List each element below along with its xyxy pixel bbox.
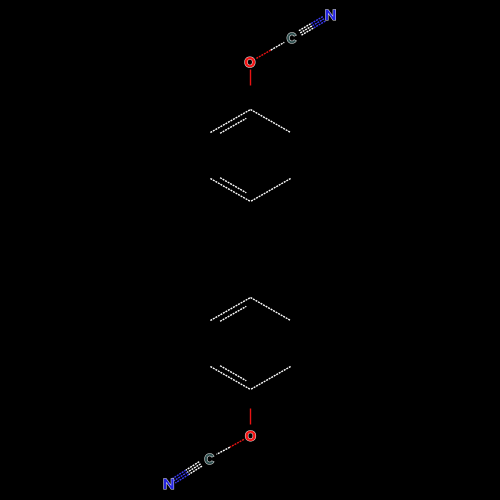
ring1 edge A3-A4 [251, 179, 291, 202]
ring2 edge B5-B4 inner double line [220, 366, 246, 381]
atom label O1 [245, 57, 255, 67]
bond O2-C2 red half [230, 439, 244, 447]
triple bond C1-N1 line2 blue half [312, 19, 324, 26]
ring2 edge B5-B4 main [210, 367, 250, 390]
ring2 edge B6-B1 main [210, 298, 250, 321]
ring2 edge B1-B2 [251, 298, 291, 321]
triple bond C2-N2 line1 blue half [173, 470, 186, 479]
atom label N2 [164, 479, 174, 489]
triple bond C2-N2 line2 blue half [174, 472, 187, 481]
ring1 edge A6-A1 inner double line [220, 118, 246, 133]
atom label N1 [326, 10, 336, 20]
triple bond C2-N2 line2 white half [187, 464, 200, 472]
triple bond C2-N2 line1 white half [186, 462, 199, 470]
triple bond C2-N2 line3 white half [189, 466, 202, 474]
ring2 edge B6-B1 inner double line [220, 306, 246, 321]
ring2 edge B3-B4 [251, 367, 291, 390]
atom label C1 [287, 33, 296, 43]
bond O2-C2 gray half [217, 447, 230, 454]
bond O1-ring1 red stub [250, 70, 252, 86]
triple bond C1-N1 line3 blue half [314, 21, 326, 28]
triple bond C1-N1 line3 white half [302, 28, 314, 35]
triple bond C1-N1 line1 white half [299, 24, 311, 31]
atom label C2 [205, 454, 214, 464]
atom label O2 [245, 431, 255, 441]
triple bond C1-N1 line1 blue half [311, 16, 323, 23]
ring1 edge A5-A4 inner double line [220, 178, 246, 193]
bond O1-C1 red half [256, 50, 270, 58]
triple bond C2-N2 line3 blue half [175, 475, 188, 484]
triple bond C1-N1 line2 white half [300, 26, 312, 33]
bond O1-C1 gray half [271, 42, 285, 50]
ring1 edge A1-A2 [251, 110, 291, 133]
ring1 edge A6-A1 main [210, 110, 250, 133]
ring1 edge A5-A4 main [210, 179, 250, 202]
bond ring2-O2 red stub [250, 409, 252, 425]
